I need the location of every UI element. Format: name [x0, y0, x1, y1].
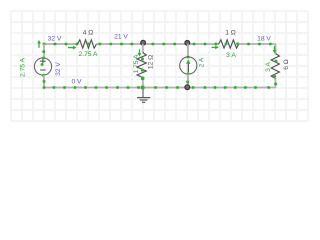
junction node 21V (top of 12ohm) [141, 40, 146, 45]
wire right branch top (corner down to R4 top) [275, 44, 277, 54]
wire top rail segment C (junction to current source top) [143, 43, 189, 46]
current source I1 circle [180, 57, 197, 76]
svg-text:2.75 A: 2.75 A [79, 51, 99, 58]
wire bottom rail [43, 86, 276, 89]
wire current source bottom stub [186, 74, 189, 88]
resistor R2 1ohm [219, 40, 239, 48]
wire 12ohm branch top stub [142, 44, 144, 53]
wire right branch bottom (R4 bottom to bottom-right corner) [274, 79, 277, 88]
svg-text:21 V: 21 V [114, 34, 128, 41]
svg-text:3 A: 3 A [226, 52, 236, 59]
wire left branch lower (source minus terminal to bottom-left corner) [43, 75, 46, 88]
wire 12ohm branch bottom stub [141, 77, 145, 90]
svg-text:2 A: 2 A [198, 57, 205, 67]
current arrow right 2.75A [68, 46, 77, 50]
current arrow down 1.75A [138, 49, 142, 56]
wire top rail segment E (R2 right to top-right corner) [239, 43, 276, 46]
svg-text:4 Ω: 4 Ω [83, 29, 94, 36]
svg-text:18 V: 18 V [257, 35, 271, 42]
svg-text:32 V: 32 V [48, 35, 62, 42]
ground symbol [137, 88, 150, 103]
wire current source top stub [187, 44, 190, 58]
current arrow right 3A [212, 46, 219, 50]
svg-text:3 A: 3 A [265, 62, 272, 72]
svg-text:0 V: 0 V [71, 79, 82, 86]
svg-text:6 Ω: 6 Ω [283, 59, 290, 70]
current arrow down 3A right branch [273, 46, 277, 53]
svg-text:1.75 A: 1.75 A [133, 54, 140, 74]
resistor R3 12ohm vertical [137, 53, 146, 78]
resistor R1 4ohm [78, 40, 97, 48]
wire top rail segment D (current source top to R2 left) [188, 43, 219, 46]
junction node bottom of current source [185, 85, 190, 90]
wire left branch upper (top-left corner down to source plus terminal) [42, 44, 45, 58]
wire top rail segment B (R1 right to node 21V junction) [97, 43, 143, 46]
current arrow up 2.75A left branch [37, 40, 41, 48]
svg-text:2.75 A: 2.75 A [20, 57, 27, 77]
svg-text:1 Ω: 1 Ω [225, 29, 236, 36]
resistor R4 6ohm vertical [271, 54, 279, 79]
svg-text:32 V: 32 V [55, 62, 62, 76]
svg-text:12 Ω: 12 Ω [148, 55, 155, 69]
voltage source V1 circle [34, 57, 51, 77]
junction node top of current source [185, 41, 190, 46]
wire top rail segment A (top-left corner to R1 left) [43, 43, 79, 46]
